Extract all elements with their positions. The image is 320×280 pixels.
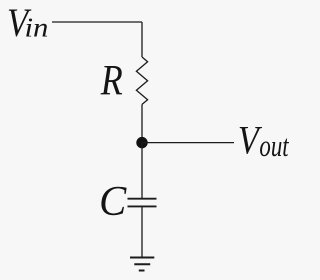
wire vertical from resistor bottom to node: [141, 104, 143, 142]
wire vertical from capacitor bottom plate to ground: [141, 206, 143, 257]
wire vertical from corner down to resistor top: [141, 22, 143, 57]
capacitor value label C: [99, 177, 127, 224]
node Vin label (V): [7, 0, 32, 45]
capacitor C bottom plate: [128, 205, 157, 207]
ground symbol bar 2 (middle): [134, 263, 150, 265]
svg-text:R: R: [100, 55, 123, 104]
node Vin label (subscript in): [24, 13, 48, 43]
wire horizontal from node to Vout: [142, 142, 234, 144]
resistor R (zigzag body): [136, 57, 147, 104]
wire vertical from node down to capacitor top plate: [141, 143, 143, 199]
capacitor C top plate: [128, 198, 157, 200]
svg-text:out: out: [259, 128, 289, 162]
node junction dot: [136, 137, 147, 148]
wire top horizontal from Vin to corner: [52, 21, 142, 23]
svg-text:in: in: [24, 13, 48, 43]
resistor value label R: [100, 55, 123, 104]
ground symbol bar 3 (shortest): [139, 270, 145, 272]
node Vout label (V): [238, 119, 263, 163]
node Vout label (subscript out): [259, 128, 289, 162]
svg-text:C: C: [99, 177, 127, 224]
ground symbol bar 1 (widest): [130, 257, 154, 259]
